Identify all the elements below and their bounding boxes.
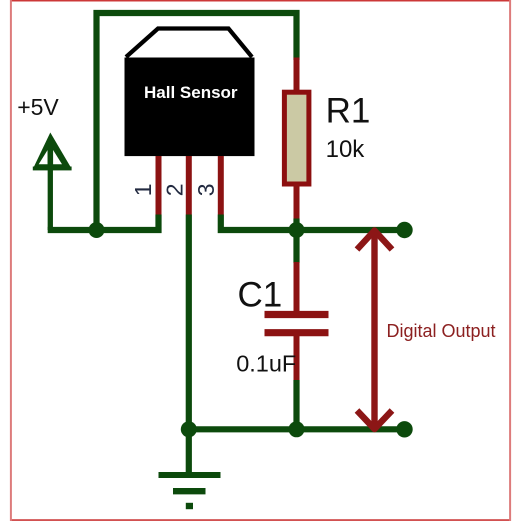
svg-text:0.1uF: 0.1uF: [236, 350, 296, 376]
junction: C1 bottom node: [289, 421, 305, 437]
junction: output node under R1: [289, 222, 305, 238]
wire: +5V corner to pin 1: [48, 215, 159, 231]
wire: C1 bottom to ground rail: [293, 380, 299, 432]
wire: R1 bottom stub: [293, 219, 299, 234]
resistor R1: [284, 58, 309, 220]
svg-text:Digital Output: Digital Output: [387, 321, 496, 341]
capacitor C1: [265, 262, 329, 381]
svg-text:2: 2: [161, 184, 187, 197]
pin 1: [156, 156, 162, 215]
svg-text:1: 1: [130, 184, 156, 197]
wire: bottom ground rail: [189, 426, 405, 432]
wire: node down to C1: [293, 227, 299, 263]
pin 2: [186, 156, 192, 215]
svg-text:3: 3: [193, 184, 219, 197]
junction: +5V node: [89, 222, 105, 238]
hall sensor U1 body: [125, 29, 255, 157]
pin 3: [218, 156, 224, 215]
svg-text:+5V: +5V: [17, 94, 59, 120]
wire: pin 2 down to ground: [186, 215, 192, 476]
wire: pin 3 to output node rail: [221, 215, 405, 231]
svg-text:Hall Sensor: Hall Sensor: [144, 83, 238, 102]
svg-text:R1: R1: [326, 92, 371, 131]
terminal dot: output bottom: [396, 421, 412, 437]
junction: pin2 / ground node: [181, 421, 197, 437]
ground: [159, 475, 221, 506]
svg-text:C1: C1: [238, 276, 283, 315]
svg-text:10k: 10k: [326, 136, 366, 163]
measurement arrow: Digital Output: [357, 231, 392, 430]
wire: left vertical rail + top rail to R1: [97, 13, 297, 233]
power symbol +5V: [33, 133, 72, 231]
terminal dot: output top: [396, 222, 412, 238]
